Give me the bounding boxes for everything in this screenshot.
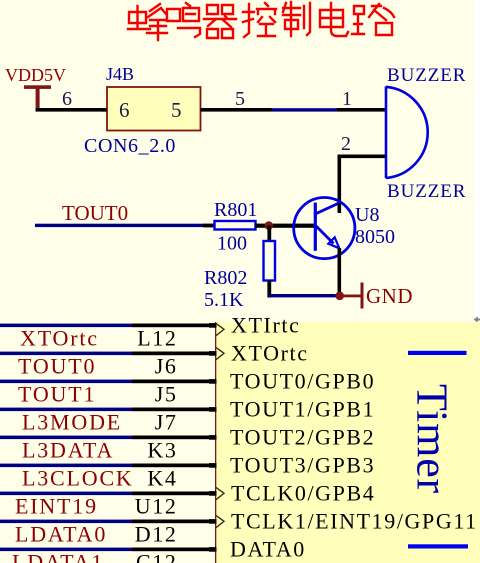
- collector stroke: [315, 203, 339, 214]
- emitter wire down: [338, 248, 342, 297]
- svg-text:TOUT0/GPB0: TOUT0/GPB0: [230, 369, 375, 394]
- svg-text:VDD5V: VDD5V: [5, 65, 66, 85]
- svg-text:5: 5: [235, 88, 245, 110]
- wire TCLK1: [0, 520, 133, 524]
- svg-text:XTIrtc: XTIrtc: [231, 313, 300, 338]
- title 蜂鸣器控制电路 (drawn strokes): [128, 2, 394, 40]
- chevron pin TCLK1: [216, 515, 224, 527]
- svg-text:K4: K4: [147, 466, 177, 491]
- svg-text:J6: J6: [155, 354, 178, 379]
- svg-text:DATA0: DATA0: [230, 537, 306, 562]
- wire buzzer pin2 to collector: [338, 155, 386, 159]
- pin stub left of J4B: [102, 108, 107, 112]
- power port GND: [343, 283, 413, 309]
- svg-text:8050: 8050: [355, 226, 395, 248]
- wire TOUT1: [0, 408, 133, 412]
- wire TOUT0: [0, 380, 133, 384]
- svg-text:J7: J7: [155, 410, 178, 435]
- svg-text:TCLK0/GPB4: TCLK0/GPB4: [231, 481, 375, 506]
- svg-text:CON6_2.0: CON6_2.0: [84, 135, 176, 157]
- wire TOUT2: [0, 436, 133, 440]
- svg-text:XTOrtc: XTOrtc: [20, 326, 99, 351]
- svg-text:R801: R801: [214, 199, 257, 221]
- char 器: [204, 5, 236, 38]
- char 鸣: [167, 3, 200, 37]
- svg-text:U12: U12: [135, 494, 178, 519]
- svg-text:TOUT0: TOUT0: [62, 201, 128, 225]
- svg-text:L3MODE: L3MODE: [22, 410, 122, 435]
- buzzer LS1 body: [386, 86, 428, 178]
- svg-text:BUZZER: BUZZER: [387, 65, 466, 86]
- svg-text:L3DATA: L3DATA: [22, 438, 114, 463]
- svg-text:TOUT0: TOUT0: [18, 354, 96, 379]
- svg-text:D12: D12: [135, 522, 178, 547]
- resistor R802 body: [264, 241, 276, 281]
- transistor base bar: [314, 203, 317, 251]
- svg-text:TOUT1: TOUT1: [18, 382, 96, 407]
- 9 horizontal wires (navy left / black right): [0, 324, 217, 552]
- wire XTIrtc: [0, 324, 133, 328]
- chevron pin XTOrtc: [216, 347, 224, 359]
- resistor R801 body: [215, 221, 256, 230]
- wire into R801 (black): [203, 224, 215, 228]
- char 电: [320, 3, 348, 36]
- svg-text:100: 100: [217, 233, 247, 255]
- wire VDD5V to J4B pin 6: [36, 108, 107, 112]
- wire XTOrtc: [0, 352, 133, 356]
- svg-text:6: 6: [119, 98, 130, 122]
- svg-text:5: 5: [171, 98, 182, 122]
- char 蜂: [128, 4, 167, 40]
- pin end nubs: [209, 323, 217, 552]
- wire stub right (top): [408, 351, 467, 355]
- svg-text:2: 2: [341, 133, 351, 155]
- svg-text:L3CLOCK: L3CLOCK: [22, 466, 134, 491]
- svg-text:TOUT2/GPB2: TOUT2/GPB2: [230, 425, 375, 450]
- wire node down to R802: [267, 226, 271, 242]
- svg-text:K3: K3: [147, 438, 177, 463]
- white scrollbar strip right of top pane: [474, 0, 480, 322]
- svg-text:TOUT3/GPB3: TOUT3/GPB3: [230, 453, 375, 478]
- wire R802 bottom corner: [267, 281, 271, 298]
- svg-text:1: 1: [342, 88, 352, 110]
- wire R801 to base node: [256, 224, 316, 228]
- wire J4B pin5 to buzzer pin1 (black-navy-black): [201, 108, 272, 112]
- wire TCLK0: [0, 492, 133, 496]
- power symbol VDD5V: [5, 65, 66, 111]
- svg-text:LDATA1: LDATA1: [12, 550, 104, 563]
- junction node at emitter/GND: [335, 292, 344, 301]
- sheet symbol Timer body: [216, 322, 480, 563]
- svg-text:XTOrtc: XTOrtc: [231, 341, 309, 366]
- wire stub right (bottom): [408, 544, 468, 548]
- chevron pin XTIrtc: [216, 323, 224, 335]
- svg-text:BUZZER: BUZZER: [387, 181, 466, 202]
- svg-text:6: 6: [62, 88, 72, 110]
- transistor Q U8 body circle: [294, 198, 355, 259]
- svg-text:EINT19: EINT19: [15, 494, 98, 519]
- connector J4B body: [107, 87, 201, 131]
- svg-text:GND: GND: [366, 284, 413, 308]
- svg-text:J4B: J4B: [106, 64, 134, 84]
- svg-text:J5: J5: [155, 382, 178, 407]
- wire TOUT0 (navy): [35, 224, 203, 227]
- char 制: [283, 2, 310, 36]
- svg-text:TCLK1/EINT19/GPG11: TCLK1/EINT19/GPG11: [231, 509, 478, 534]
- char 控: [243, 3, 276, 37]
- wire DATA0: [0, 548, 133, 552]
- collector wire up: [338, 203, 342, 213]
- char 路: [352, 4, 394, 35]
- junction node at base: [265, 221, 274, 230]
- emitter stroke with arrow: [316, 226, 334, 244]
- svg-text:L12: L12: [137, 326, 177, 351]
- svg-text:U8: U8: [355, 204, 379, 226]
- svg-text:LDATA0: LDATA0: [15, 522, 107, 547]
- svg-text:5.1K: 5.1K: [204, 289, 244, 311]
- svg-text:Timer: Timer: [408, 384, 457, 494]
- wire TOUT3: [0, 464, 133, 468]
- wire bottom run to emitter node (navy): [269, 294, 340, 297]
- svg-text:TOUT1/GPB1: TOUT1/GPB1: [230, 397, 375, 422]
- gray scroll arrow: [474, 316, 480, 322]
- chevron pin TCLK0: [216, 487, 224, 499]
- svg-text:R802: R802: [204, 267, 247, 289]
- svg-text:C12: C12: [136, 550, 177, 563]
